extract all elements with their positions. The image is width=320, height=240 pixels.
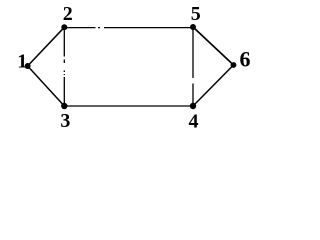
wire edge 4-6 xyxy=(193,65,234,106)
node 5 vertex dot xyxy=(190,24,196,30)
node 4 vertex dot xyxy=(190,103,196,109)
wire edge 1-2 xyxy=(28,27,65,66)
node 1 vertex dot xyxy=(25,63,31,69)
svg-text:2: 2 xyxy=(63,3,73,25)
wire edge 5-4 vertical (broken) xyxy=(192,29,194,104)
node 2 vertex dot xyxy=(61,24,67,30)
svg-text:4: 4 xyxy=(189,110,199,132)
wire edge 5-6 xyxy=(193,27,234,65)
node 6 vertex dot xyxy=(231,62,237,68)
svg-text:3: 3 xyxy=(60,110,70,132)
wire edge 3-4 bottom horizontal xyxy=(64,105,193,107)
svg-text:5: 5 xyxy=(191,3,201,25)
svg-text:1: 1 xyxy=(17,50,27,72)
wire edge 2-3 vertical (broken) xyxy=(63,29,65,104)
wire edge 1-3 xyxy=(28,66,65,106)
node 3 vertex dot xyxy=(61,103,67,109)
wire edge 2-5 top horizontal xyxy=(64,27,193,29)
svg-text:6: 6 xyxy=(240,47,251,72)
